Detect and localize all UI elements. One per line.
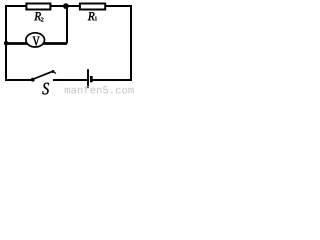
wire voltmeter branch vertical bbox=[66, 6, 68, 44]
battery positive plate bbox=[87, 69, 89, 88]
switch S blade tip bbox=[52, 70, 55, 73]
wire right bbox=[130, 5, 132, 81]
watermark manfen5.com bbox=[65, 86, 134, 94]
switch S blade bbox=[34, 71, 53, 79]
wire voltmeter branch horizontal bbox=[5, 42, 67, 45]
label S bbox=[42, 83, 49, 95]
node top junction bbox=[63, 3, 69, 9]
wire top bbox=[5, 5, 131, 7]
label R2 bbox=[34, 12, 41, 20]
node left junction bbox=[4, 41, 9, 46]
voltmeter U1 body bbox=[26, 33, 45, 47]
switch S contact mark bbox=[54, 72, 56, 75]
switch S pivot node bbox=[31, 78, 35, 82]
wire bottom middle segment bbox=[53, 79, 87, 81]
wire bottom right segment bbox=[93, 79, 132, 81]
label R1 bbox=[88, 12, 95, 20]
battery negative plate bbox=[90, 76, 93, 82]
wire bottom left segment bbox=[5, 79, 32, 81]
resistor R1 bbox=[80, 4, 105, 10]
resistor R2 bbox=[26, 4, 50, 10]
wire left bbox=[5, 5, 7, 81]
voltmeter V label bbox=[33, 37, 40, 46]
